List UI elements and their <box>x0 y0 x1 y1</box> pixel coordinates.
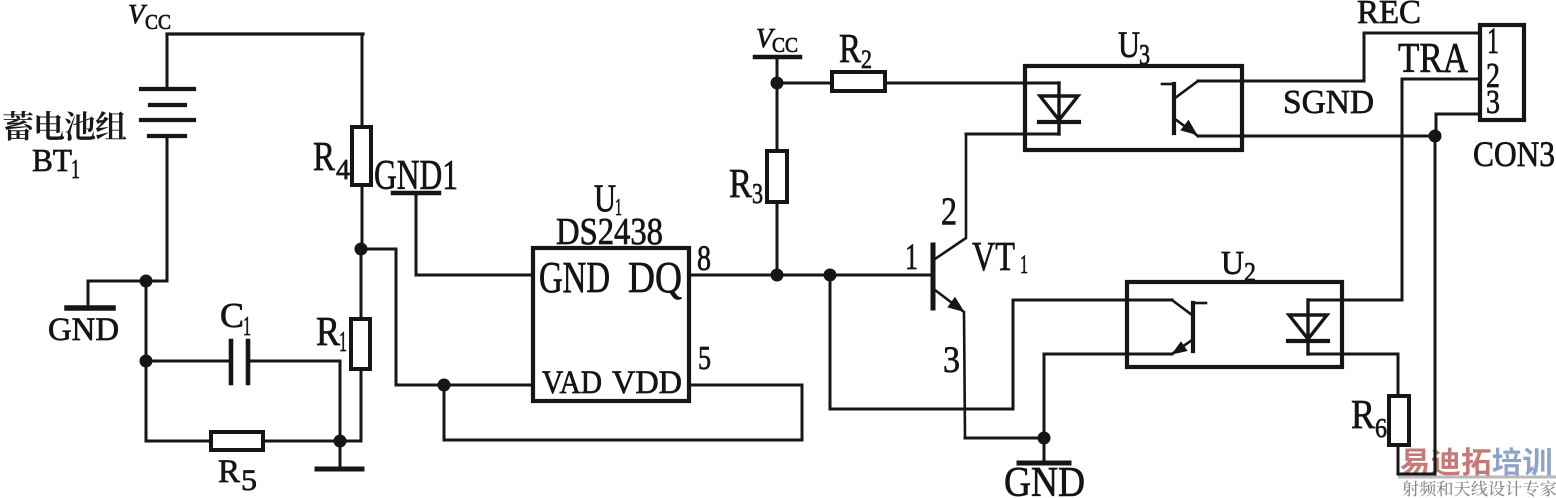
svg-text:GND: GND <box>48 312 119 348</box>
wire Vcc2 to R2 <box>777 82 832 85</box>
transistor U3 phototransistor <box>1162 81 1198 136</box>
svg-text:REC: REC <box>1357 0 1421 31</box>
wire VT1 collector to U3 LED cathode <box>966 133 1059 136</box>
wire R4 bottom lead <box>361 185 364 249</box>
wire VT1 emitter to GND node <box>965 437 1044 440</box>
wire SGND down right side <box>1434 136 1437 474</box>
capacitor C1 <box>231 341 248 383</box>
diode U2 LED <box>1288 300 1328 354</box>
battery BT1 <box>141 89 194 136</box>
wire U3 emitter output (SGND) <box>1198 135 1435 138</box>
diode U3 LED <box>1039 83 1079 134</box>
ground GND1 bar <box>393 191 439 196</box>
wire ground stub <box>339 441 342 466</box>
pin label VDD (U1) <box>612 365 682 401</box>
node Vcc label (R2 side) <box>756 23 798 57</box>
node junction DQ/U2 branch <box>824 269 837 282</box>
pin label DQ (U1) <box>628 253 682 302</box>
resistor R4 <box>352 127 371 185</box>
svg-text:GND: GND <box>539 253 610 302</box>
transistor VT1 base bar <box>931 245 936 308</box>
label TRA <box>1398 36 1469 82</box>
svg-text:5: 5 <box>241 464 257 497</box>
transistor U2 emitter arrow <box>1173 343 1187 354</box>
wire battery positive lead <box>166 34 169 89</box>
label DS2438 <box>556 211 663 253</box>
svg-text:U: U <box>1221 245 1244 282</box>
svg-text:VT: VT <box>972 233 1015 279</box>
pin label GND (U1) <box>539 253 610 302</box>
wire R2 to U3 LED anode <box>885 82 1059 85</box>
wire U3 collector output (REC) <box>1198 33 1480 81</box>
wire junction down to C1 net <box>145 281 148 361</box>
transistor U3 emitter arrow <box>1182 121 1197 134</box>
pin number 3 (VT1 emitter) <box>943 340 960 381</box>
svg-text:3: 3 <box>1486 84 1500 121</box>
node junction SGND <box>1429 130 1442 143</box>
svg-text:BT: BT <box>32 142 72 178</box>
resistor R5 <box>211 432 263 450</box>
svg-text:2: 2 <box>861 45 872 74</box>
wire R3 top lead <box>776 83 779 151</box>
wire Vcc top rail <box>167 32 363 35</box>
svg-text:1: 1 <box>243 311 251 341</box>
label GND (left) <box>48 312 119 348</box>
wire R1 top lead <box>360 249 363 319</box>
node junction R3/DQ <box>771 269 784 282</box>
pin number 2 (CON3) <box>1486 56 1500 95</box>
power bar Vcc2 <box>755 55 800 60</box>
label R5 <box>218 454 257 497</box>
wire Vcc2 stub <box>776 57 779 83</box>
svg-text:C: C <box>220 296 244 335</box>
node Vcc label (battery side) <box>128 0 171 34</box>
svg-text:SGND: SGND <box>1283 84 1374 121</box>
svg-text:3: 3 <box>943 340 960 381</box>
svg-text:3: 3 <box>752 178 763 210</box>
resistor R1 <box>351 319 370 369</box>
svg-text:1: 1 <box>905 237 918 278</box>
svg-text:R: R <box>316 308 341 354</box>
node junction R4/R1/VAD <box>355 243 368 256</box>
svg-text:TRA: TRA <box>1398 36 1469 82</box>
pin number 8 <box>697 238 711 278</box>
label BT1 <box>32 142 80 184</box>
label VT1 <box>972 233 1028 279</box>
wire branch down to U2 collector <box>830 275 1172 409</box>
wire C1 net down to R5 <box>145 361 148 441</box>
wire to left ground <box>88 281 167 305</box>
wire junction to VAD net <box>361 249 533 385</box>
resistor R6 <box>1389 396 1409 445</box>
watermark 射频和天线设计专家 <box>1403 480 1556 496</box>
node junction battery/C1 <box>140 275 153 288</box>
wire U2 emitter to ground <box>1044 354 1172 438</box>
label U3 <box>1118 25 1150 71</box>
label R4 <box>313 133 350 186</box>
svg-text:VDD: VDD <box>612 365 682 401</box>
optocoupler U3 box <box>1025 66 1242 150</box>
svg-text:8: 8 <box>697 238 711 278</box>
wire R4 top lead <box>361 34 364 127</box>
label SGND <box>1283 84 1374 121</box>
label GND1 <box>374 153 458 199</box>
wire R6 bottom to SGND <box>1398 445 1435 474</box>
svg-text:DQ: DQ <box>628 253 682 302</box>
resistor R2 <box>832 72 885 91</box>
pin number 1 (CON3) <box>1487 21 1499 62</box>
wire DQ pin 8 to VT1 base <box>689 274 931 277</box>
optocoupler U2 box <box>1127 282 1342 367</box>
node junction VAD/VDD return <box>438 379 451 392</box>
label R6 <box>1351 391 1387 443</box>
svg-text:U: U <box>1118 25 1140 66</box>
svg-text:GND: GND <box>1004 460 1085 498</box>
svg-text:1: 1 <box>339 326 347 358</box>
wire R3 bottom lead <box>776 202 779 275</box>
node junction Vcc2 <box>771 77 784 90</box>
wire TRA: CON3 pin2 to U2 LED anode <box>1308 79 1480 300</box>
ground (left, battery) <box>67 305 113 311</box>
svg-text:1: 1 <box>71 154 80 184</box>
svg-text:R: R <box>729 160 753 206</box>
label U1 <box>594 177 622 221</box>
svg-text:6: 6 <box>1375 413 1387 443</box>
label U2 <box>1221 245 1256 287</box>
svg-text:R: R <box>839 25 862 71</box>
svg-text:R: R <box>313 133 336 179</box>
op-amp U1 DS2438 box <box>533 248 689 401</box>
svg-text:R: R <box>218 454 240 490</box>
wire CON3 pin3 to SGND <box>1436 114 1480 136</box>
pin number 3 (CON3) <box>1486 84 1500 121</box>
label 蓄电池组 <box>3 111 126 141</box>
wire U2 LED cathode to R6 <box>1308 354 1398 396</box>
wire R5 right to ground node <box>263 440 361 443</box>
wire C1 right plate to R1 bottom net <box>248 361 340 441</box>
wire battery negative lead <box>166 136 169 281</box>
wire VDD return loop <box>444 385 802 440</box>
node junction VT1 emitter / U2 emitter <box>1038 432 1051 445</box>
wire R1 bottom lead <box>360 369 363 441</box>
svg-text:3: 3 <box>1139 40 1150 71</box>
transistor U2 phototransistor <box>1172 300 1206 354</box>
label R3 <box>729 160 763 210</box>
label C1 <box>220 296 251 341</box>
wire to C1 left plate <box>146 360 229 363</box>
svg-text:CC: CC <box>772 33 798 57</box>
transistor VT1 collector <box>935 134 966 259</box>
svg-text:4: 4 <box>336 154 350 186</box>
node junction C1 left <box>140 355 153 368</box>
ground (center) <box>1019 461 1069 466</box>
ground (below R1) <box>317 467 362 472</box>
pin number 5 <box>698 340 711 377</box>
transistor VT1 emitter arrow <box>949 298 964 311</box>
pin number 1 (VT1 base) <box>905 237 918 278</box>
svg-text:2: 2 <box>1244 257 1256 287</box>
label R2 <box>839 25 872 74</box>
svg-text:CC: CC <box>145 10 171 34</box>
pin number 2 (VT1 collector) <box>941 190 957 233</box>
svg-text:1: 1 <box>1020 250 1028 279</box>
watermark 易迪拓培训 <box>1401 447 1551 476</box>
svg-text:CON3: CON3 <box>1473 134 1555 174</box>
connector CON3 box <box>1480 25 1524 120</box>
pin label VAD (U1) <box>542 365 602 401</box>
svg-text:5: 5 <box>698 340 711 377</box>
svg-text:VAD: VAD <box>542 365 602 401</box>
label REC <box>1357 0 1421 31</box>
wire to R5 left <box>146 440 211 443</box>
resistor R3 <box>767 151 787 202</box>
svg-text:R: R <box>1351 391 1376 437</box>
wire ground stub (center) <box>1043 438 1046 461</box>
wire GND1 to U1 GND pin <box>416 193 533 275</box>
svg-text:2: 2 <box>941 190 957 233</box>
label CON3 <box>1473 134 1555 174</box>
transistor VT1 emitter <box>935 290 965 438</box>
label R1 <box>316 308 347 358</box>
watermark underline <box>1398 476 1556 479</box>
label GND (center) <box>1004 460 1085 498</box>
node junction R5/R1/ground <box>334 435 347 448</box>
svg-text:DS2438: DS2438 <box>556 211 663 253</box>
